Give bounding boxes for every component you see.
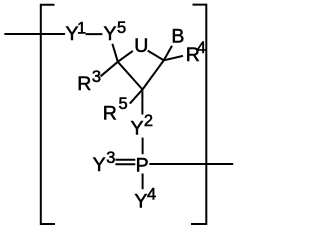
svg-text:U: U [134,35,148,57]
svg-text:P: P [136,154,149,176]
svg-text:Y: Y [130,117,143,139]
svg-text:3: 3 [106,149,115,167]
svg-text:R: R [77,73,91,95]
svg-text:Y: Y [134,190,147,212]
svg-text:5: 5 [119,95,128,113]
svg-text:2: 2 [144,112,153,130]
svg-text:5: 5 [117,19,126,37]
svg-text:Y: Y [103,23,116,45]
svg-text:Y: Y [93,154,106,176]
svg-text:B: B [171,26,184,48]
svg-text:1: 1 [77,20,86,38]
svg-text:R: R [103,103,117,125]
svg-text:3: 3 [92,68,101,86]
svg-text:4: 4 [147,186,156,204]
svg-text:4: 4 [197,39,206,57]
